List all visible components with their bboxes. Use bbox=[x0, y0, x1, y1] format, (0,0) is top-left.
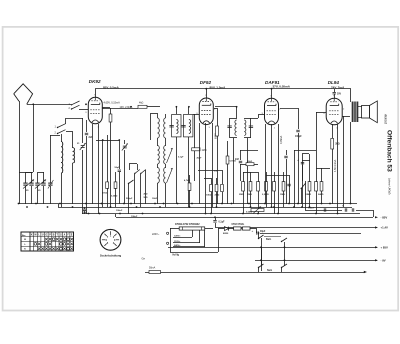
node antenna junction bbox=[32, 103, 34, 105]
wire supply bus 3 bbox=[82, 213, 360, 215]
svg-text:0702 0702L: 0702 0702L bbox=[232, 223, 245, 226]
wire bbox=[188, 107, 190, 114]
switch S1a band bbox=[72, 101, 80, 105]
svg-text:220V~: 220V~ bbox=[152, 233, 160, 236]
svg-text:40µF: 40µF bbox=[260, 230, 266, 233]
wire bbox=[233, 138, 235, 204]
wire bbox=[321, 168, 323, 182]
capacitor C5 50pF bbox=[118, 169, 121, 171]
svg-text:100nF: 100nF bbox=[308, 208, 315, 210]
wire bbox=[283, 191, 285, 207]
wire bbox=[110, 108, 112, 114]
svg-text:DK92: DK92 bbox=[89, 79, 101, 84]
wire switch link bbox=[264, 236, 281, 238]
wire 40uF to switch bbox=[258, 233, 260, 238]
node bbox=[130, 106, 132, 108]
wire bbox=[205, 228, 213, 230]
wire DK92 pin down bbox=[92, 124, 94, 204]
svg-text:Ge: Ge bbox=[142, 257, 146, 261]
wire bbox=[217, 136, 219, 204]
wire antenna leg left bbox=[19, 101, 21, 204]
wire bbox=[150, 114, 152, 140]
svg-text:0,2MΩ: 0,2MΩ bbox=[111, 196, 118, 198]
resistor R23 bbox=[226, 156, 229, 164]
wire bbox=[147, 106, 160, 108]
wire bbox=[240, 164, 246, 166]
node bbox=[260, 259, 262, 261]
capacitor C7 IF1 tune bbox=[169, 124, 173, 126]
wire bbox=[350, 122, 352, 204]
wire bbox=[309, 154, 311, 160]
wire bbox=[227, 164, 229, 204]
svg-text:80V, 1,5mA: 80V, 1,5mA bbox=[210, 86, 227, 90]
wire to DAF91 grid bbox=[258, 114, 264, 116]
wire bbox=[321, 191, 323, 204]
svg-text:0,1MΩ: 0,1MΩ bbox=[230, 161, 237, 163]
wire bbox=[283, 172, 285, 182]
wire bbox=[176, 107, 178, 114]
wire bbox=[119, 172, 121, 204]
inductor L10 IF2 secondary bbox=[244, 120, 246, 136]
wire bbox=[302, 160, 304, 207]
wire antenna to band switch bbox=[27, 104, 71, 106]
wire IF2 can1 left bbox=[229, 118, 231, 138]
wire bbox=[107, 135, 109, 182]
wire coil L2 top bbox=[72, 131, 74, 148]
capacitor C17 0,1uF bbox=[213, 220, 216, 222]
node bbox=[284, 259, 286, 261]
wire bbox=[305, 210, 342, 212]
wire coil L1 top bbox=[61, 134, 63, 142]
svg-text:0,1µF: 0,1µF bbox=[219, 222, 226, 224]
wire bbox=[217, 108, 219, 126]
svg-text:74V, 7mA: 74V, 7mA bbox=[331, 86, 345, 90]
switch S4a bbox=[135, 170, 140, 174]
wire bbox=[243, 172, 245, 182]
wire DK92 anode to resistor bbox=[102, 108, 138, 110]
wire bbox=[316, 150, 318, 182]
table marks bbox=[24, 234, 73, 251]
wire bbox=[261, 238, 263, 266]
resistor R22 50mA bbox=[149, 271, 161, 274]
wire bbox=[115, 172, 117, 182]
arrow to -85V bbox=[375, 216, 378, 218]
wire IF2 can2 right bbox=[250, 118, 252, 138]
wire bbox=[66, 118, 83, 120]
wire tap 240V bbox=[204, 230, 206, 247]
svg-text:B250: B250 bbox=[223, 233, 229, 235]
inductor L6a bbox=[164, 118, 166, 138]
node bbox=[102, 139, 104, 141]
wire rung 125V bbox=[173, 237, 192, 239]
wire bbox=[358, 106, 362, 108]
wire coil L2 bottom bbox=[72, 163, 74, 204]
wire bbox=[43, 172, 45, 183]
wire bbox=[332, 124, 334, 138]
wire bbox=[350, 89, 352, 102]
svg-text:1MΩ: 1MΩ bbox=[202, 150, 207, 152]
terminal circles mains bbox=[167, 232, 169, 234]
wire bbox=[215, 218, 217, 220]
wire bbox=[243, 191, 245, 214]
inductor L7 IF1 bbox=[176, 120, 178, 134]
svg-text:Sockelschaltung: Sockelschaltung bbox=[100, 254, 122, 258]
wire IF1 can frame 2 bbox=[184, 115, 193, 137]
wire bbox=[222, 192, 224, 204]
wire bbox=[86, 120, 88, 132]
wire bbox=[302, 154, 304, 161]
wire bbox=[274, 191, 276, 214]
wire ground bus 1 bbox=[19, 203, 357, 205]
wire DK92 pin down bbox=[98, 124, 100, 214]
wire IF1 can frame bbox=[172, 115, 181, 137]
svg-text:240Ω: 240Ω bbox=[318, 193, 324, 196]
wire bbox=[241, 228, 242, 230]
svg-text:85V, 0,5mA: 85V, 0,5mA bbox=[103, 86, 120, 90]
wire bbox=[216, 178, 218, 184]
wire -9V line bbox=[255, 260, 377, 262]
resistor chain 2 bbox=[234, 227, 242, 230]
svg-text:DF92: DF92 bbox=[200, 80, 212, 85]
wire bbox=[240, 150, 242, 160]
wire bbox=[137, 164, 139, 170]
switch S3 osc band bbox=[129, 180, 134, 184]
wire to DF92 grid pin 3 bbox=[193, 114, 199, 116]
wire DF92 pin center bbox=[205, 123, 207, 214]
svg-text:50mA: 50mA bbox=[149, 266, 156, 269]
wire bbox=[289, 186, 291, 204]
wire bbox=[115, 188, 117, 207]
switch mains a bbox=[259, 264, 264, 268]
node bbox=[176, 106, 178, 108]
node bbox=[260, 246, 262, 248]
output transformer T1 bbox=[351, 102, 353, 123]
wire +85V line bbox=[168, 247, 377, 249]
wire bbox=[258, 172, 260, 182]
wire bbox=[124, 150, 126, 204]
wire bbox=[50, 135, 60, 137]
svg-text:Batt.: Batt. bbox=[266, 238, 272, 241]
wire bbox=[247, 138, 249, 204]
resistor R15 bbox=[265, 182, 268, 192]
svg-text:240V≈: 240V≈ bbox=[174, 244, 181, 247]
wire selector left bbox=[170, 228, 172, 252]
svg-text:Offenbach 53: Offenbach 53 bbox=[386, 130, 393, 172]
wire bbox=[216, 192, 218, 207]
wire DAF91 anode bbox=[280, 108, 298, 110]
switch battery a bbox=[259, 235, 264, 239]
wire bbox=[358, 117, 362, 119]
inductor L1 antenna coil LW bbox=[61, 142, 63, 174]
resistor R17 bbox=[282, 182, 285, 192]
resistor R9 bbox=[210, 185, 213, 192]
svg-text:5kΩ: 5kΩ bbox=[144, 197, 148, 199]
wire DL94 anode to output transformer bbox=[342, 116, 350, 118]
wire bbox=[189, 175, 191, 183]
table dial-cord / voltages bbox=[21, 232, 74, 251]
wire bbox=[258, 115, 260, 118]
wire bbox=[309, 191, 311, 207]
svg-text:1MΩ: 1MΩ bbox=[247, 194, 252, 196]
capacitor at DL94 top bbox=[333, 91, 336, 93]
svg-text:3MΩ: 3MΩ bbox=[239, 194, 244, 196]
resistor R11 bbox=[221, 185, 224, 192]
wire bbox=[188, 137, 190, 207]
wire bbox=[286, 159, 288, 204]
capacitor C11 IF2 tune 2 bbox=[249, 125, 253, 127]
wire rung 240V bbox=[173, 246, 205, 248]
wire bbox=[43, 186, 45, 204]
wire bbox=[102, 140, 104, 207]
wire core line L2 bbox=[74, 148, 76, 163]
capacitor C21 bbox=[284, 155, 287, 157]
inductor L6c bbox=[164, 168, 166, 184]
switch S1b band bbox=[72, 105, 80, 109]
wire bbox=[129, 164, 131, 170]
resistor R3 bbox=[106, 182, 109, 189]
capacitor C13 bbox=[287, 183, 290, 185]
wire bbox=[286, 150, 288, 155]
wire tap 110V bbox=[199, 230, 201, 243]
wire bbox=[66, 131, 72, 133]
wire DF92 anode wire bbox=[215, 106, 237, 108]
capacitor C8 IF1 tune 2 bbox=[181, 124, 185, 126]
wire bbox=[316, 191, 318, 214]
inductor L5c bbox=[158, 168, 160, 184]
resistor R21 2k bbox=[331, 139, 334, 150]
switch S5 tone bbox=[301, 183, 306, 189]
wire bbox=[256, 228, 258, 233]
resistor R16 bbox=[273, 182, 276, 192]
wire bbox=[294, 150, 316, 152]
svg-text:HzVlg: HzVlg bbox=[173, 254, 180, 256]
tube V4 DL94 bbox=[326, 98, 342, 125]
svg-text:+: + bbox=[252, 229, 254, 233]
node bbox=[258, 232, 260, 234]
svg-text:10MΩ: 10MΩ bbox=[305, 194, 311, 196]
svg-text:500pF: 500pF bbox=[126, 198, 133, 200]
svg-text:37V, 0,05mA: 37V, 0,05mA bbox=[273, 85, 291, 89]
wire bbox=[289, 175, 291, 187]
tube V2 DF92 bbox=[199, 98, 213, 125]
tube socket diagram bbox=[100, 229, 121, 250]
capacitor C12 2nF bbox=[239, 160, 242, 162]
resistor R1 bbox=[109, 114, 112, 122]
svg-text:1MΩ: 1MΩ bbox=[280, 194, 285, 196]
wire bbox=[157, 183, 159, 204]
wire bbox=[165, 164, 167, 168]
resistor R19 bbox=[315, 182, 318, 192]
svg-text:M: M bbox=[34, 235, 36, 237]
wire bbox=[25, 172, 27, 183]
wire bbox=[302, 165, 304, 181]
switch battery b bbox=[282, 238, 288, 242]
wire bbox=[244, 137, 251, 139]
wire +1,4V line bbox=[216, 227, 377, 229]
wire bus link bbox=[58, 204, 60, 207]
wire bbox=[128, 184, 130, 214]
svg-text:- 9V: - 9V bbox=[381, 259, 386, 263]
switch S2a wave band bbox=[58, 124, 66, 128]
wire bbox=[250, 191, 252, 207]
resistor R7 bbox=[188, 183, 191, 191]
core adjust arrows bbox=[167, 148, 173, 163]
node bbox=[214, 216, 216, 218]
trimmer capacitor C2 tuning bbox=[81, 145, 85, 147]
resistor R4 bbox=[114, 182, 117, 189]
svg-text:Netz: Netz bbox=[267, 269, 273, 272]
svg-text:4,7kΩ: 4,7kΩ bbox=[184, 179, 190, 182]
capacitor C20 1nF bbox=[83, 208, 86, 210]
wire switch to lamp line 2 bbox=[281, 268, 283, 272]
wire antenna leg right bbox=[33, 104, 35, 172]
wire bbox=[222, 170, 224, 184]
capacitor C4 2nF bbox=[85, 132, 88, 134]
wire dial lamp line bbox=[145, 272, 364, 274]
svg-text:100nF: 100nF bbox=[131, 216, 138, 218]
inductor L6b bbox=[164, 146, 166, 165]
wire coil L1 bottom bbox=[61, 173, 63, 207]
wire bbox=[316, 168, 330, 170]
potentiometer volume 0,5M bbox=[251, 209, 264, 212]
svg-text:+1,4V: +1,4V bbox=[381, 226, 389, 230]
wire bbox=[165, 114, 167, 118]
wire DAF91 pin bbox=[265, 124, 267, 204]
wire bbox=[227, 141, 229, 156]
wire to DL94 grid bbox=[316, 112, 326, 114]
svg-text:G: G bbox=[45, 235, 47, 237]
wire DAF91 anode riser bbox=[271, 89, 273, 98]
wire bbox=[251, 118, 258, 120]
svg-text:0,1µF: 0,1µF bbox=[178, 157, 184, 159]
resistor R2 4k bbox=[138, 105, 147, 108]
antenna bbox=[14, 84, 33, 105]
inductor L9 IF2 primary bbox=[235, 120, 237, 136]
tube V3 DAF91 bbox=[265, 98, 279, 125]
resistor R6 1M bbox=[192, 148, 200, 151]
inductor L2 antenna coil MW bbox=[73, 148, 75, 164]
capacitor bbox=[344, 208, 346, 211]
wire bbox=[84, 211, 86, 214]
wire bbox=[176, 137, 178, 204]
wire bbox=[302, 160, 310, 162]
wire rung 110V bbox=[173, 242, 200, 244]
svg-text:2kΩ: 2kΩ bbox=[144, 194, 148, 196]
wire bbox=[96, 140, 103, 142]
svg-text:+: + bbox=[342, 204, 344, 208]
wire bbox=[334, 94, 336, 98]
wire bbox=[25, 186, 27, 204]
resistor R10 bbox=[215, 185, 218, 192]
wire bbox=[305, 181, 307, 207]
switch S2b wave band bbox=[58, 130, 66, 134]
wire DF92 pin bbox=[212, 123, 214, 207]
wire bbox=[244, 118, 251, 120]
wire bbox=[204, 178, 211, 180]
wire AVC line bbox=[194, 114, 196, 181]
inductor L5a bbox=[158, 118, 160, 138]
svg-text:100nF: 100nF bbox=[116, 210, 123, 212]
wire bbox=[86, 136, 88, 214]
wire bbox=[305, 207, 307, 210]
resistor R20 bbox=[320, 182, 323, 192]
wire bbox=[218, 228, 224, 230]
wire bbox=[170, 228, 179, 230]
svg-text:0,05mA: 0,05mA bbox=[280, 135, 283, 144]
wire bbox=[165, 138, 167, 146]
wire bbox=[107, 188, 109, 207]
node bbox=[85, 103, 87, 105]
svg-text:50kΩ: 50kΩ bbox=[247, 161, 252, 163]
wire bbox=[316, 112, 318, 150]
wire bottom rung bbox=[170, 252, 218, 254]
wire bbox=[356, 210, 373, 212]
wire bbox=[31, 172, 33, 183]
svg-text:0700Ω-0702 0700/Ω02: 0700Ω-0702 0700/Ω02 bbox=[175, 223, 200, 226]
wire bbox=[19, 172, 33, 174]
wire bbox=[261, 247, 263, 271]
node bbox=[236, 106, 238, 108]
svg-text:20V: 20V bbox=[337, 93, 342, 95]
wire bbox=[103, 140, 119, 142]
svg-text:4,5V,0,4mA: 4,5V,0,4mA bbox=[334, 159, 337, 172]
svg-text:4kΩ: 4kΩ bbox=[139, 102, 144, 105]
wire bbox=[230, 137, 237, 139]
wire bbox=[258, 191, 260, 214]
resistor R8 600 bbox=[216, 126, 219, 136]
svg-text:0,5MΩ: 0,5MΩ bbox=[246, 212, 253, 214]
capacitor bbox=[351, 208, 353, 211]
svg-text:Ber.: Ber. bbox=[22, 234, 26, 237]
wire bbox=[211, 178, 213, 184]
switch S4b bbox=[141, 170, 146, 174]
wire switch to lamp line bbox=[258, 268, 260, 272]
capacitor C10 IF2 tune bbox=[227, 125, 231, 127]
svg-text:+ 85V: + 85V bbox=[381, 246, 389, 250]
wire bbox=[129, 163, 137, 165]
diode rectifier B250 bbox=[225, 227, 229, 231]
wire bbox=[230, 118, 237, 120]
wire DL94 riser bbox=[334, 89, 336, 92]
wire bbox=[211, 192, 213, 214]
wire bbox=[302, 153, 309, 155]
wire bbox=[228, 228, 234, 230]
resistor R14 bbox=[257, 182, 260, 192]
loudspeaker LS bbox=[362, 106, 370, 119]
wire supply bus 4 bbox=[116, 217, 373, 219]
wire bbox=[240, 164, 242, 181]
svg-text:(ohne UKW): (ohne UKW) bbox=[388, 178, 392, 195]
svg-text:20pF: 20pF bbox=[197, 158, 203, 160]
wire bbox=[84, 207, 86, 209]
wire bbox=[145, 170, 147, 204]
wire bbox=[218, 228, 220, 252]
switch mains b bbox=[282, 264, 288, 268]
wire bbox=[332, 149, 334, 204]
node bbox=[118, 139, 120, 141]
wire bbox=[157, 164, 159, 168]
wire bbox=[102, 107, 110, 109]
wire bbox=[157, 138, 159, 146]
wire core line L1 bbox=[62, 142, 64, 173]
wire bbox=[140, 174, 142, 207]
resistor R12 bbox=[242, 182, 245, 192]
wire bbox=[214, 108, 217, 110]
wire bbox=[215, 223, 217, 228]
wire bbox=[157, 114, 159, 118]
wire bbox=[189, 190, 191, 207]
wire bbox=[298, 108, 300, 129]
